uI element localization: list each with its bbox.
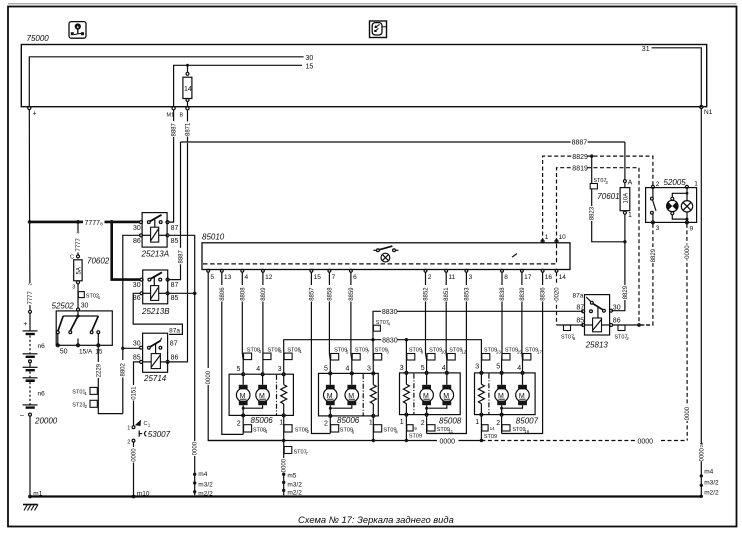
svg-text:m2/2: m2/2 bbox=[704, 490, 719, 497]
connector ST09-7 bbox=[352, 348, 370, 360]
relay 25213A bbox=[133, 213, 178, 259]
bus 8830 lower: mirror pin 3 distribution bbox=[284, 338, 482, 373]
svg-text:8829: 8829 bbox=[651, 248, 657, 262]
svg-text:8851: 8851 bbox=[444, 287, 450, 301]
svg-text:15: 15 bbox=[314, 274, 322, 281]
wire 8858: 85010 pin 7 to mirror 85006-2 pin 5 bbox=[326, 272, 334, 372]
wire from pin + to battery, node 7777 junction bbox=[26, 110, 34, 311]
svg-text:17: 17 bbox=[537, 350, 543, 355]
svg-text:86: 86 bbox=[133, 238, 141, 245]
connector ST02-1 bbox=[78, 292, 101, 300]
svg-text:8809: 8809 bbox=[261, 287, 267, 301]
svg-text:0000: 0000 bbox=[206, 370, 212, 384]
ground nodes m4 m3/2 m2/2 (left column) bbox=[193, 471, 213, 498]
svg-text:10: 10 bbox=[441, 350, 447, 355]
svg-text:6: 6 bbox=[573, 336, 576, 341]
wire 8829 dashed: to 85010 pin 1 bbox=[543, 154, 653, 242]
motor M right bbox=[425, 374, 454, 409]
svg-text:m3/2: m3/2 bbox=[198, 481, 213, 488]
wire 2229 from 52502 pin 15 bbox=[95, 347, 123, 414]
motor M right bbox=[329, 375, 359, 410]
svg-text:1: 1 bbox=[279, 420, 283, 427]
lamp symbol bbox=[686, 188, 688, 200]
pin B of 75000 bbox=[180, 107, 190, 119]
svg-text:16: 16 bbox=[545, 274, 553, 281]
ground bus 0000 (solid part) bbox=[208, 439, 483, 446]
wire: relay 25213B pin 86 to relay 25714 pin 87a bbox=[133, 293, 182, 334]
svg-text:8859: 8859 bbox=[349, 287, 355, 301]
svg-text:85: 85 bbox=[133, 355, 141, 362]
svg-text:m3/2: m3/2 bbox=[704, 479, 719, 486]
svg-text:5: 5 bbox=[421, 365, 425, 372]
svg-text:86: 86 bbox=[171, 355, 179, 362]
connector ST08-1 bbox=[284, 347, 302, 359]
wire 8859: 85010 pin 6 to mirror 85006-2 pin 4 bbox=[347, 272, 355, 372]
motor M left bbox=[236, 376, 250, 414]
svg-text:30: 30 bbox=[133, 282, 141, 289]
wire: relay 25213B pin 85 to node bbox=[169, 292, 196, 296]
connector ST09-16 bbox=[502, 425, 530, 434]
svg-text:n6: n6 bbox=[38, 343, 46, 350]
connector ST09-6 bbox=[331, 425, 355, 435]
svg-text:+: + bbox=[23, 321, 27, 328]
svg-text:8808: 8808 bbox=[240, 287, 246, 301]
wire 8857: 85010 pin 15 to mirror 85006-2 pin 2 bbox=[308, 272, 331, 433]
svg-text:87a: 87a bbox=[573, 293, 584, 300]
svg-text:15/A: 15/A bbox=[79, 348, 93, 355]
svg-text:17: 17 bbox=[524, 274, 532, 281]
svg-text:+: + bbox=[33, 111, 37, 118]
wire 8806: 85010 pin 13 to mirror 85006-1 pin 2 bbox=[218, 272, 243, 434]
wire 8808: 85010 pin 4 to mirror 85006-1 pin 5 bbox=[239, 272, 247, 373]
connector ST09-5 bbox=[331, 348, 349, 360]
svg-text:5A: 5A bbox=[76, 267, 82, 274]
svg-text:0000: 0000 bbox=[440, 439, 456, 446]
svg-text:8819: 8819 bbox=[572, 166, 588, 173]
svg-text:5: 5 bbox=[210, 274, 214, 281]
motor M right bbox=[500, 374, 529, 409]
svg-text:3: 3 bbox=[278, 366, 282, 373]
svg-text:87: 87 bbox=[171, 282, 179, 289]
svg-text:52005: 52005 bbox=[664, 178, 687, 187]
svg-text:m5: m5 bbox=[287, 472, 296, 479]
svg-text:8857: 8857 bbox=[309, 287, 315, 301]
svg-text:24: 24 bbox=[699, 442, 704, 448]
svg-text:2: 2 bbox=[656, 181, 660, 188]
wire: relay 25213A pin 85 right and down to node bbox=[169, 235, 195, 291]
wire 8829: fuse 70601 to relay 25813 pin 30 bbox=[611, 242, 629, 311]
ground nodes m4 m3/2 m2/2 (right column) bbox=[700, 469, 719, 498]
relay 25813 bbox=[573, 293, 621, 350]
connector ST09-9 bbox=[407, 425, 422, 440]
svg-text:8887: 8887 bbox=[572, 139, 588, 146]
connector ST07-6 bbox=[561, 325, 576, 341]
85010 top pin 1 bbox=[541, 234, 549, 243]
svg-text:8829: 8829 bbox=[572, 154, 588, 161]
wire 8852: 85010 pin 2 to mirror 85008 pin 5 bbox=[422, 272, 430, 372]
svg-text:0000: 0000 bbox=[685, 406, 691, 420]
connector ST09-10 bbox=[427, 348, 446, 360]
svg-text:5: 5 bbox=[237, 366, 241, 373]
svg-text:85: 85 bbox=[171, 295, 179, 302]
svg-text:5: 5 bbox=[279, 349, 282, 354]
svg-text:2: 2 bbox=[127, 439, 130, 445]
svg-text:9: 9 bbox=[414, 426, 417, 431]
svg-text:3: 3 bbox=[259, 349, 262, 354]
mirror assembly 85006 (passenger side) bbox=[319, 366, 379, 428]
caption: Схема № 17 bbox=[298, 514, 454, 525]
wire 8871 tail: relay 25714 pin 86 to wire 8871 bbox=[169, 143, 187, 362]
svg-text:7: 7 bbox=[332, 274, 336, 281]
svg-text:86: 86 bbox=[133, 295, 141, 302]
connector ST09-15 bbox=[502, 348, 522, 360]
svg-text:1: 1 bbox=[545, 234, 549, 241]
svg-text:75000: 75000 bbox=[27, 34, 50, 43]
svg-text:m4: m4 bbox=[198, 471, 207, 478]
svg-text:Схема № 17: Зеркала заднего ви: Схема № 17: Зеркала заднего вида bbox=[298, 514, 454, 525]
resistor (heater) bbox=[403, 374, 409, 413]
svg-text:8838: 8838 bbox=[500, 287, 506, 301]
svg-text:3: 3 bbox=[475, 364, 479, 371]
svg-text:4: 4 bbox=[245, 274, 249, 281]
wire 8839: 85010 pin 17 to mirror 85007 pin 4 bbox=[518, 272, 526, 372]
wire 8871 from pin B down then left to node, bus 8887 to the right, branch down to relay 25213B pin 87 bbox=[169, 110, 625, 280]
svg-text:2: 2 bbox=[496, 420, 500, 427]
svg-text:0000: 0000 bbox=[638, 439, 654, 446]
svg-text:14: 14 bbox=[559, 274, 567, 281]
svg-text:8823: 8823 bbox=[590, 206, 596, 220]
svg-text:n6: n6 bbox=[38, 391, 46, 398]
svg-text:8871: 8871 bbox=[185, 122, 191, 136]
svg-text:ST23: ST23 bbox=[72, 402, 85, 408]
wire: mirror 85006-1 pin 2 to wire 8806 bbox=[242, 417, 244, 435]
svg-text:2: 2 bbox=[237, 421, 241, 428]
wire 7777-4 to fuse 70602 bbox=[74, 222, 82, 255]
svg-text:m4: m4 bbox=[704, 469, 713, 476]
svg-text:85: 85 bbox=[171, 238, 179, 245]
svg-text:m3/2: m3/2 bbox=[287, 481, 302, 488]
wire 0000 from 85010 pin 5 to ground bus bbox=[204, 272, 281, 440]
svg-text:1: 1 bbox=[85, 391, 88, 396]
svg-text:13: 13 bbox=[224, 274, 232, 281]
svg-text:5: 5 bbox=[496, 364, 500, 371]
svg-text:12: 12 bbox=[461, 350, 467, 355]
chassis ground symbol bbox=[23, 505, 38, 511]
wire: mirror 85008 pin 2 to wire 8853 bbox=[426, 416, 428, 434]
resistor (heater) bbox=[370, 375, 376, 415]
svg-text:2: 2 bbox=[626, 336, 629, 341]
svg-text:3: 3 bbox=[605, 180, 608, 185]
svg-text:3: 3 bbox=[72, 285, 75, 291]
svg-text:11: 11 bbox=[449, 429, 454, 434]
wire: mirror 85006-2 pin 2 to wire 8857 bbox=[329, 417, 331, 433]
svg-text:8836: 8836 bbox=[541, 287, 547, 301]
svg-text:8: 8 bbox=[100, 221, 103, 226]
fuse 14 bbox=[183, 64, 192, 107]
svg-text:ST09: ST09 bbox=[484, 434, 497, 440]
mirror assembly 85008 (rear left) bbox=[400, 365, 462, 427]
svg-text:8806: 8806 bbox=[220, 287, 226, 301]
resistor (heater) bbox=[281, 376, 287, 414]
svg-text:N1: N1 bbox=[704, 109, 713, 116]
wire 8838: 85010 pin 8 to mirror 85007 pin 5 bbox=[498, 272, 506, 372]
relay 25714 bbox=[133, 333, 179, 383]
svg-text:12: 12 bbox=[265, 274, 273, 281]
wire 0000 from pin N1 to ground (right column) bbox=[698, 109, 706, 496]
connector ST08-5 bbox=[263, 347, 282, 359]
wire: mirror 85008 pin 1 to ground bus bbox=[405, 416, 407, 441]
svg-text:4: 4 bbox=[395, 429, 398, 434]
svg-text:13: 13 bbox=[496, 350, 502, 355]
ground node m1 bbox=[28, 490, 43, 498]
mirror control unit 85010 bbox=[202, 233, 570, 270]
wire 8836: 85010 pin 16 to mirror 85007 pin 2 bbox=[502, 272, 547, 433]
svg-text:25213A: 25213A bbox=[141, 250, 170, 259]
svg-text:2229: 2229 bbox=[96, 363, 102, 377]
bus 30 inside 75000 bbox=[29, 55, 313, 107]
svg-text:8830: 8830 bbox=[382, 309, 398, 316]
power mirror icon bbox=[370, 21, 387, 38]
mirror assembly 85006 (driver side) bbox=[229, 366, 293, 428]
wire 0020 dashed: 85010 pin 14 to relay 25813 pin 85 bbox=[553, 272, 583, 325]
wire 8819 dashed: to 85010 pin 10 bbox=[557, 166, 640, 325]
connector ST09-4 bbox=[374, 425, 399, 435]
svg-text:2: 2 bbox=[324, 421, 328, 428]
connector ST07-2 bbox=[614, 325, 629, 341]
svg-text:2: 2 bbox=[307, 429, 310, 434]
svg-text:0000: 0000 bbox=[131, 448, 137, 462]
wire 8802 from relay 25213A pin 86 down to node with 2229, branch to relay 25714 pin 30 bbox=[119, 235, 141, 413]
svg-text:8852: 8852 bbox=[424, 287, 430, 301]
pin M1 of 75000 bbox=[167, 107, 176, 119]
svg-text:4: 4 bbox=[265, 429, 268, 434]
svg-text:31: 31 bbox=[642, 46, 650, 53]
svg-text:7777: 7777 bbox=[28, 290, 34, 304]
bus 15 inside 75000 bbox=[174, 63, 314, 107]
wire 8829 dashed: 52005 pin 3 to relay 25813 pin 86 node bbox=[641, 224, 658, 325]
85010 bottom pins bbox=[207, 269, 567, 281]
svg-text:8: 8 bbox=[504, 274, 508, 281]
wire: mirror 85007 pin 1 to ground bus bbox=[480, 416, 482, 441]
svg-text:30: 30 bbox=[613, 304, 621, 311]
suppressor 53007 bbox=[127, 420, 170, 446]
svg-text:2: 2 bbox=[85, 404, 88, 409]
connector ST09-17 bbox=[523, 348, 543, 360]
svg-text:20000: 20000 bbox=[34, 417, 58, 426]
svg-text:8853: 8853 bbox=[464, 287, 470, 301]
svg-text:0151: 0151 bbox=[131, 386, 137, 400]
wire to ground m5 with connector ST07-7 bbox=[280, 441, 308, 496]
mirror switch unit 52005 bbox=[646, 178, 699, 233]
resistor (heater) bbox=[478, 374, 484, 413]
wire 0000 from node down to ground m4 bbox=[191, 293, 199, 495]
battery 20000 bbox=[20, 310, 58, 495]
svg-text:0000: 0000 bbox=[193, 441, 199, 455]
svg-text:30: 30 bbox=[133, 340, 141, 347]
wire: mirror 85007 pin 2 to wire 8836 bbox=[501, 416, 503, 434]
svg-text:3: 3 bbox=[367, 366, 371, 373]
svg-text:4: 4 bbox=[442, 365, 446, 372]
svg-text:25813: 25813 bbox=[585, 341, 609, 350]
fuse box 75000 bbox=[21, 34, 706, 107]
wire 0151: relay 25714 pin 85 to 53007 bbox=[130, 362, 140, 426]
svg-text:85006: 85006 bbox=[337, 416, 360, 425]
motor M right bbox=[242, 376, 270, 410]
svg-text:25714: 25714 bbox=[143, 374, 167, 383]
svg-text:7777: 7777 bbox=[76, 237, 82, 251]
svg-text:15: 15 bbox=[306, 63, 314, 70]
svg-text:4: 4 bbox=[388, 322, 391, 327]
svg-text:3: 3 bbox=[386, 350, 389, 355]
connector ST08-4 bbox=[244, 425, 268, 435]
fuse 70601 10A bbox=[597, 142, 632, 244]
connector ST09-11 bbox=[427, 425, 454, 434]
two-tone knob symbol bbox=[667, 200, 678, 211]
svg-text:3: 3 bbox=[469, 274, 473, 281]
wire 7777 thick feed bbox=[30, 220, 141, 280]
svg-text:5: 5 bbox=[324, 366, 328, 373]
svg-text:1: 1 bbox=[98, 295, 101, 300]
connector ST09-8 bbox=[407, 348, 424, 360]
svg-text:7777: 7777 bbox=[85, 220, 101, 227]
svg-text:0000: 0000 bbox=[699, 447, 705, 461]
ground node m10 bbox=[132, 490, 150, 498]
connector ST01-1 bbox=[72, 387, 97, 396]
svg-text:87: 87 bbox=[576, 304, 584, 311]
ground nodes m5 m3/2 m2/2 (middle column) bbox=[282, 472, 302, 496]
wire 8851: 85010 pin 11 to mirror 85008 pin 4 bbox=[442, 272, 450, 372]
wire: mirror 85006-1 pin 1 to ground bus bbox=[283, 417, 285, 441]
svg-text:8839: 8839 bbox=[520, 287, 526, 301]
svg-text:8829: 8829 bbox=[623, 285, 629, 299]
svg-text:85010: 85010 bbox=[202, 233, 225, 242]
wire 8887 from pin M1 to relay 25213A pin 87 bbox=[169, 110, 178, 222]
svg-text:0000: 0000 bbox=[685, 245, 691, 259]
wire 8809: 85010 pin 12 to mirror 85006-1 pin 4 bbox=[259, 272, 267, 373]
relay 25213B bbox=[133, 270, 179, 316]
svg-text:2: 2 bbox=[428, 274, 432, 281]
svg-text:16: 16 bbox=[524, 429, 530, 434]
svg-text:1: 1 bbox=[299, 349, 302, 354]
svg-text:B: B bbox=[180, 113, 184, 119]
svg-text:1: 1 bbox=[400, 419, 404, 426]
svg-text:85007: 85007 bbox=[516, 417, 539, 426]
bus 8830 upper to relay 25813 pin 87, link via ST07-4 bbox=[373, 309, 583, 340]
svg-text:25213B: 25213B bbox=[141, 307, 170, 316]
svg-text:ST09: ST09 bbox=[409, 434, 422, 440]
ignition key icon bbox=[69, 22, 86, 39]
svg-text:14: 14 bbox=[184, 86, 192, 93]
svg-text:0000: 0000 bbox=[282, 458, 288, 472]
ground bus 0000 (dashed part) bbox=[481, 439, 687, 446]
line 31 with pin N1 bbox=[642, 46, 713, 116]
svg-text:87: 87 bbox=[171, 225, 179, 232]
svg-text:8802: 8802 bbox=[121, 362, 127, 376]
mirror assembly 85007 (rear right) bbox=[475, 364, 539, 428]
svg-text:A: A bbox=[628, 180, 633, 187]
svg-text:10: 10 bbox=[559, 234, 567, 241]
fuse 70602 5A bbox=[70, 255, 110, 309]
wire 8853: 85010 pin 3 to mirror 85008 pin 2 bbox=[427, 272, 471, 433]
svg-text:30: 30 bbox=[81, 303, 89, 310]
svg-text:86: 86 bbox=[613, 318, 621, 325]
svg-text:87a: 87a bbox=[169, 328, 180, 335]
svg-text:8858: 8858 bbox=[327, 287, 333, 301]
svg-text:85006: 85006 bbox=[251, 416, 274, 425]
svg-text:4: 4 bbox=[256, 366, 260, 373]
svg-text:8887: 8887 bbox=[172, 122, 178, 136]
svg-text:85008: 85008 bbox=[439, 417, 462, 426]
svg-text:ST01: ST01 bbox=[72, 389, 85, 395]
wire: mirror 85006-2 pin 1 to ground bus bbox=[372, 417, 374, 440]
svg-text:7: 7 bbox=[367, 350, 370, 355]
motor M left bbox=[495, 374, 509, 413]
85010 top pin 10 bbox=[555, 234, 566, 243]
wire 0000 dashed: 52005 pin 9 to ground bus bbox=[683, 224, 691, 441]
svg-text:1: 1 bbox=[475, 419, 479, 426]
svg-text:50: 50 bbox=[60, 348, 68, 355]
svg-text:52502: 52502 bbox=[52, 301, 75, 310]
svg-text:5: 5 bbox=[346, 350, 349, 355]
svg-text:70601: 70601 bbox=[597, 192, 619, 201]
svg-text:6: 6 bbox=[352, 429, 355, 434]
svg-text:9: 9 bbox=[690, 225, 694, 232]
wire 8823: node 8829 via ST07-3 to fuse 70601 output bbox=[588, 156, 624, 242]
connector ST09-3 bbox=[374, 348, 390, 360]
svg-text:14: 14 bbox=[490, 426, 496, 431]
pin + of 75000 bbox=[28, 106, 37, 117]
svg-text:7: 7 bbox=[305, 451, 308, 456]
wire: relay 25813 pin 86 to node bbox=[613, 323, 653, 327]
svg-text:8: 8 bbox=[421, 350, 424, 355]
svg-text:4: 4 bbox=[346, 366, 350, 373]
connector ST09-12 bbox=[447, 348, 466, 360]
svg-text:8887: 8887 bbox=[179, 249, 185, 263]
svg-text:M1: M1 bbox=[167, 113, 175, 119]
svg-text:1: 1 bbox=[369, 420, 373, 427]
svg-text:70602: 70602 bbox=[87, 257, 110, 266]
svg-text:1: 1 bbox=[628, 212, 632, 219]
connector ST08-2 bbox=[284, 425, 309, 435]
connector ST09-13 bbox=[482, 348, 501, 360]
svg-text:0020: 0020 bbox=[555, 287, 561, 301]
svg-text:3: 3 bbox=[400, 365, 404, 372]
svg-text:10A: 10A bbox=[623, 193, 629, 204]
svg-text:1: 1 bbox=[694, 180, 698, 187]
svg-text:15: 15 bbox=[95, 348, 103, 355]
ignition switch 52502 bbox=[52, 301, 113, 355]
svg-text:3: 3 bbox=[656, 225, 660, 232]
svg-text:–: – bbox=[20, 412, 24, 419]
svg-text:4: 4 bbox=[517, 365, 521, 372]
svg-text:85: 85 bbox=[576, 318, 584, 325]
motor M left bbox=[420, 374, 434, 413]
svg-text:2: 2 bbox=[421, 420, 425, 427]
svg-text:30: 30 bbox=[306, 55, 314, 62]
svg-text:87: 87 bbox=[170, 340, 178, 347]
motor M left bbox=[324, 375, 338, 415]
connector ST09-14 bbox=[482, 425, 497, 440]
svg-text:6: 6 bbox=[353, 274, 357, 281]
connector ST08-3 bbox=[244, 347, 262, 359]
svg-text:53007: 53007 bbox=[148, 430, 171, 439]
svg-text:1: 1 bbox=[148, 423, 151, 428]
svg-text:30: 30 bbox=[133, 225, 141, 232]
ground rail bbox=[30, 495, 701, 497]
svg-text:8830: 8830 bbox=[382, 338, 398, 345]
wire 0000 from 53007 to ground m10 bbox=[130, 442, 138, 495]
svg-text:1: 1 bbox=[127, 426, 130, 432]
